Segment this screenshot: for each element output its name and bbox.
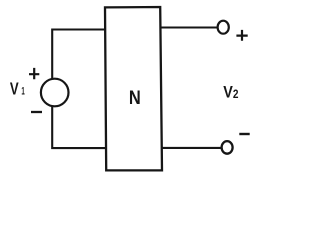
svg-text:V: V bbox=[10, 79, 19, 99]
svg-text:V: V bbox=[223, 82, 233, 101]
wire bottom-left (V1 bottom to box) bbox=[52, 106, 106, 149]
wire top-left (V1 top to box) bbox=[52, 30, 105, 80]
svg-text:N: N bbox=[129, 88, 141, 109]
label V2 bbox=[223, 82, 238, 101]
voltage source V1 bbox=[41, 79, 69, 107]
two-port network box N bbox=[105, 7, 162, 170]
wire top-right (box to + terminal) bbox=[160, 26, 217, 28]
label N bbox=[129, 88, 141, 109]
svg-text:2: 2 bbox=[233, 87, 239, 101]
polarity - of V1 bbox=[31, 111, 42, 113]
polarity + of V1 bbox=[29, 68, 39, 79]
output terminal - (bottom) bbox=[222, 141, 233, 154]
polarity + of V2 bbox=[236, 30, 247, 41]
label V1 bbox=[10, 79, 25, 99]
output terminal + (top) bbox=[218, 21, 229, 34]
polarity - of V2 bbox=[239, 133, 249, 135]
wire bottom-right (box to - terminal) bbox=[162, 147, 221, 149]
svg-text:1: 1 bbox=[21, 86, 24, 98]
